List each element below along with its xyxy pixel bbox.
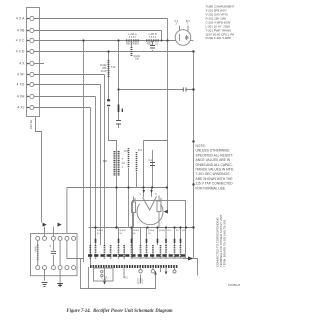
svg-text:T-201 SEC WINDINGS: T-201 SEC WINDINGS [196, 172, 231, 176]
svg-text:4 XB: 4 XB [17, 29, 25, 33]
svg-text:T: T [122, 158, 124, 161]
svg-text:4 X A: 4 X A [16, 17, 25, 21]
svg-text:4 X 8.7: 4 X 8.7 [129, 36, 137, 39]
svg-text:115 V: 115 V [137, 282, 143, 284]
svg-text:TB 201: TB 201 [29, 120, 33, 130]
svg-text:X 2: X 2 [124, 278, 128, 280]
svg-text:RECTIFIER: RECTIFIER [126, 43, 139, 46]
svg-text:50: 50 [148, 233, 151, 235]
svg-text:B 3: B 3 [186, 20, 190, 23]
svg-text:C-2: C-2 [149, 159, 154, 162]
svg-text:7.5 X 1: 7.5 X 1 [149, 36, 157, 39]
svg-text:4 XF: 4 XF [17, 73, 24, 77]
svg-text:4 X: 4 X [19, 62, 25, 66]
svg-text:Figure 7-24. Rectifier Power: Figure 7-24. Rectifier Power Unit Schema… [67, 309, 173, 314]
svg-text:100: 100 [135, 58, 140, 61]
svg-text:R-302: R-302 [120, 230, 127, 232]
svg-text:R-4: R-4 [138, 149, 143, 152]
svg-text:5 W: 5 W [111, 66, 116, 69]
svg-text:FUSE F-201 3 AMP: FUSE F-201 3 AMP [206, 36, 231, 40]
svg-text:C: C [50, 246, 52, 248]
svg-text:C 301: C 301 [101, 277, 108, 279]
svg-text:1: 1 [139, 194, 141, 196]
svg-text:PRI: PRI [103, 160, 107, 163]
svg-text:S 301: S 301 [137, 280, 144, 282]
svg-text:115 V TAP CONNECTED: 115 V TAP CONNECTED [196, 182, 234, 186]
svg-text:R 4-8: R 4-8 [34, 246, 36, 252]
svg-text:1: 1 [122, 166, 124, 169]
svg-text:4 XJ: 4 XJ [18, 106, 25, 110]
svg-text:4 XH: 4 XH [17, 95, 25, 99]
svg-text:4 XG: 4 XG [17, 83, 25, 87]
svg-text:NOTE:: NOTE: [196, 144, 206, 148]
svg-text:2 0: 2 0 [122, 162, 126, 165]
svg-text:SPECIFIED ALL RESIST-: SPECIFIED ALL RESIST- [196, 153, 234, 157]
svg-text:ARE SHOWN WITH THE: ARE SHOWN WITH THE [196, 177, 234, 181]
svg-text:RECT. 1.5: RECT. 1.5 [147, 43, 159, 46]
svg-text:R-303: R-303 [133, 230, 140, 232]
svg-text:50: 50 [97, 233, 100, 235]
svg-text:C 6: C 6 [175, 20, 179, 23]
svg-text:R-3: R-3 [124, 150, 129, 153]
svg-text:R-305: R-305 [159, 230, 166, 232]
svg-text:R-6: R-6 [167, 230, 171, 232]
svg-text:6: 6 [155, 194, 157, 196]
svg-text:R-304: R-304 [148, 230, 155, 232]
svg-text:ANCE VALUES ARE IN: ANCE VALUES ARE IN [196, 158, 231, 162]
svg-text:50: 50 [120, 233, 123, 235]
svg-text:4 X C: 4 X C [16, 39, 25, 43]
svg-text:TM 866-250: TM 866-250 [228, 283, 240, 287]
svg-text:50: 50 [133, 233, 136, 235]
svg-text:4 X D: 4 X D [16, 50, 25, 54]
svg-text:R-7: R-7 [176, 230, 180, 232]
svg-text:OHMS AND ALL CAPAC-: OHMS AND ALL CAPAC- [196, 163, 233, 167]
svg-text:R-301: R-301 [97, 230, 104, 232]
svg-text:FOR NORMAL USE.: FOR NORMAL USE. [196, 186, 227, 190]
svg-text:ITANCE VALUES IN MFD.: ITANCE VALUES IN MFD. [196, 168, 235, 172]
svg-text:TERM. BOARD TB-202 AND TB-203: TERM. BOARD TB-202 AND TB-203 [223, 219, 227, 267]
svg-text:UNLESS OTHERWISE: UNLESS OTHERWISE [196, 149, 231, 153]
svg-text:10 W: 10 W [101, 70, 107, 73]
